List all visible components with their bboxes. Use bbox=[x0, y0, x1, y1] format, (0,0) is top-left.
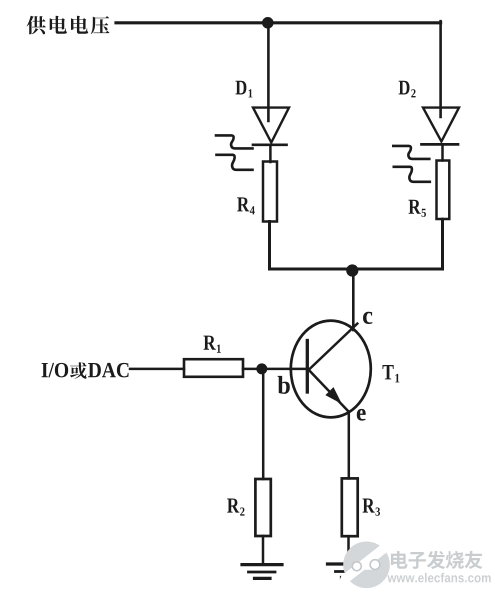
resistor R2 body bbox=[255, 479, 270, 536]
LED D2 squiggle arrow lower bbox=[394, 167, 430, 182]
resistor R1 body bbox=[184, 359, 243, 377]
resistor R5 body bbox=[437, 161, 450, 220]
label D1 bbox=[235, 81, 246, 95]
net label I/O或DAC bbox=[42, 362, 129, 378]
LED D1 triangle (anode) bbox=[253, 108, 289, 143]
wire: input to R1 bbox=[130, 368, 184, 371]
wire: base junction down to R2 bbox=[262, 371, 265, 479]
label b (base pin) bbox=[278, 376, 290, 394]
transistor T1 collector lead bbox=[309, 324, 357, 370]
wire: rail drop to D1 anode bbox=[267, 23, 270, 121]
label R2 bbox=[227, 499, 239, 513]
wire: junction to collector bbox=[352, 270, 355, 330]
resistor R4 body bbox=[263, 162, 277, 222]
LED D1 squiggle arrow upper bbox=[216, 135, 253, 148]
node: supply rail junction dot bbox=[262, 17, 274, 29]
watermark text www.elecfans.com bbox=[387, 573, 490, 583]
LED D2 triangle (anode) bbox=[423, 108, 459, 142]
ground symbol under R3 bbox=[328, 562, 362, 565]
watermark logo disc bbox=[343, 542, 390, 589]
ground symbol under R2 bbox=[242, 563, 282, 566]
transistor T1 base bar bbox=[306, 341, 309, 393]
label R3 bbox=[362, 499, 374, 513]
label R4 bbox=[237, 197, 249, 211]
wire: D2 cathode to R5 bbox=[441, 144, 444, 160]
label c (collector pin) bbox=[363, 312, 372, 324]
LED D2 cathode bar bbox=[422, 143, 459, 146]
watermark text 电子发烧友 bbox=[391, 551, 483, 569]
net label 供电电压 (supply voltage) bbox=[27, 16, 110, 35]
wire: emitter down to R3 bbox=[348, 412, 351, 478]
LED D1 squiggle arrow lower bbox=[217, 155, 253, 170]
label T1 bbox=[382, 365, 393, 379]
label R5 bbox=[408, 200, 420, 214]
resistor R3 body bbox=[342, 478, 358, 536]
transistor T1 emitter arrowhead bbox=[327, 388, 341, 402]
wire: R3 to ground bbox=[347, 536, 350, 563]
transistor T1 emitter lead bbox=[310, 371, 349, 412]
wire: top supply rail bbox=[116, 21, 441, 24]
wire: rail drop to D2 anode bbox=[439, 21, 442, 117]
node: base junction dot bbox=[256, 363, 267, 374]
node: rail-to-collector junction dot bbox=[346, 264, 358, 276]
wire: R2 to ground bbox=[262, 536, 265, 565]
LED D1 cathode bar bbox=[253, 143, 287, 146]
LED D2 squiggle arrow upper bbox=[393, 146, 429, 159]
label D2 bbox=[399, 81, 410, 95]
wire: D1 cathode to R4 bbox=[269, 145, 272, 162]
label R1 bbox=[203, 336, 215, 350]
wire: R4 down, bottom rail, up to R5 bbox=[270, 219, 443, 269]
wire: R1 to base bbox=[243, 368, 307, 371]
transistor T1 envelope circle bbox=[291, 321, 371, 418]
label e (emitter pin) bbox=[357, 409, 366, 421]
